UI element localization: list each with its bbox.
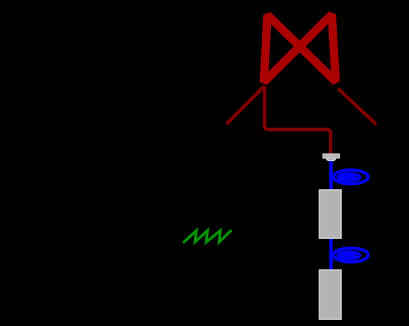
crossed-belt drive bowtie: [264, 15, 336, 83]
spring S1 coil: [333, 170, 368, 184]
spring S2 coil: [333, 248, 368, 262]
damper sawtooth: [183, 230, 231, 243]
connecting rod wire: [265, 86, 331, 153]
mass M1: [319, 190, 341, 238]
spring S1 rod: [329, 161, 333, 190]
left belt string: [227, 87, 265, 125]
anchor dome highlight: [327, 159, 336, 161]
anchor cap: [323, 154, 340, 158]
spring S2 rod: [329, 239, 333, 270]
mass M2: [319, 270, 341, 319]
right belt string: [338, 89, 376, 125]
anchor dome: [326, 158, 337, 161]
